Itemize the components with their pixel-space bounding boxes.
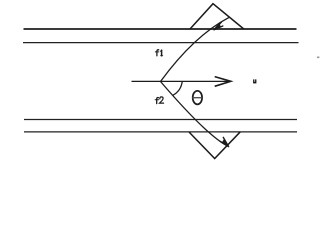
ray f2 (from vertex to bottom wedge face, slightly curved)	[161, 82, 229, 147]
label f1	[155, 50, 162, 56]
bottom wall lower line	[24, 131, 297, 133]
bottom wedge scatterer	[189, 132, 240, 159]
label theta glyph	[192, 91, 202, 105]
bottom wall upper line	[24, 119, 297, 121]
velocity arrow u shaft	[132, 80, 231, 82]
top wall lower line	[23, 42, 299, 44]
ray f1 (from top wedge face down to vertex, slightly curved)	[161, 17, 230, 81]
arrowhead on ray f1 (points down-left, at upper wall line)	[214, 22, 223, 30]
label u	[253, 79, 256, 83]
top wedge scatterer	[190, 4, 244, 29]
angle arc theta	[173, 81, 183, 95]
speck (scan artifact)	[317, 57, 319, 59]
arrowhead on ray f2 (points down-right, tip on wedge face)	[220, 137, 228, 146]
label f2	[155, 97, 164, 104]
top wall upper line	[24, 28, 297, 30]
velocity arrow u open head	[215, 77, 231, 87]
